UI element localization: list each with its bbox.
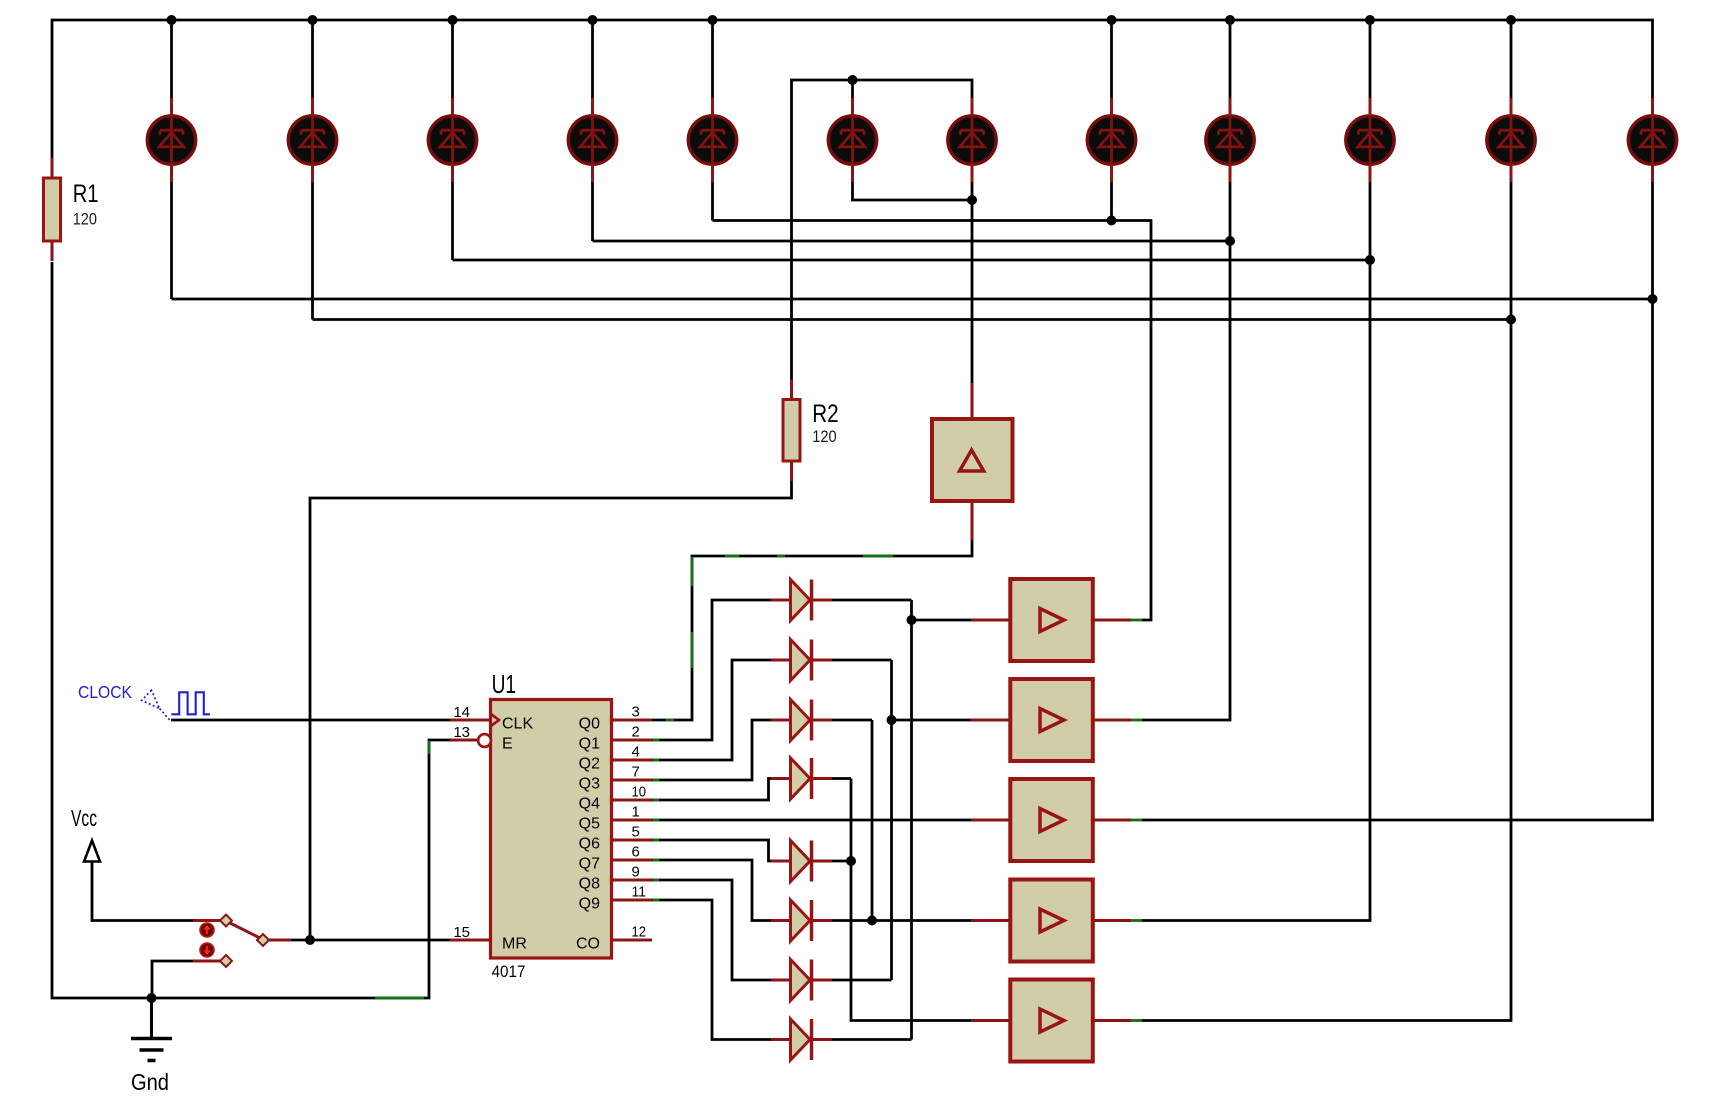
wire LED6 top stub to mini rail <box>851 80 854 98</box>
buffer U5 <box>971 779 1131 861</box>
junction node (171.5,20) <box>167 15 177 25</box>
wire LED9 column to buffer U4 output <box>1142 182 1230 720</box>
wire buffer U6 input <box>872 919 971 922</box>
junction node (712.5,20) <box>708 15 718 25</box>
wire LED2 bottom to bus row <box>311 182 314 320</box>
wire state segment (green) on ground rail <box>375 997 424 1000</box>
junction node (1652.5,299) <box>1648 294 1658 304</box>
wire state segment (green) on Q0 net vertical <box>691 557 694 668</box>
led D1 <box>147 98 195 182</box>
pin 7 Q3 <box>579 764 652 793</box>
svg-text:1: 1 <box>632 804 640 821</box>
resistor R1 <box>44 158 61 261</box>
wire D5 output <box>832 860 851 863</box>
led D2 <box>288 98 336 182</box>
wire state segment (green) at buffer U4 output <box>1131 719 1142 722</box>
diode D3 <box>771 700 832 741</box>
wire rail to LED1 top <box>170 20 173 98</box>
led D9 <box>1206 98 1254 182</box>
svg-text:Q1: Q1 <box>579 735 600 752</box>
svg-text:Gnd: Gnd <box>131 1069 169 1095</box>
switch SW1 down actuator button <box>200 943 214 957</box>
wire Q4 to diode D4 <box>652 779 771 801</box>
junction node (1370,20) <box>1365 15 1375 25</box>
wire Q7 to diode D6 <box>652 860 771 921</box>
wire D6 output <box>832 919 872 922</box>
wire R1 bottom to ground rail and E pin <box>52 262 450 998</box>
diode D1 <box>771 580 832 621</box>
pin 14 CLK <box>450 704 533 733</box>
svg-text:4017: 4017 <box>492 962 526 981</box>
wire rail to LED5 top <box>711 20 714 98</box>
led D4 <box>568 98 616 182</box>
led D6 <box>828 98 876 182</box>
pin 2 Q1 <box>579 724 652 753</box>
wire LED3 bottom to bus row <box>451 182 454 260</box>
wire state segment (green) on Q3 pin <box>653 779 660 782</box>
wire bus LED2 to LED11 column <box>313 318 1512 321</box>
svg-text:7: 7 <box>632 764 640 781</box>
svg-text:E: E <box>502 735 513 752</box>
diode D4 <box>771 758 832 799</box>
wire Vcc arrow to switch throw 1 <box>92 862 193 921</box>
led D8 <box>1087 98 1135 182</box>
wire rail to LED3 top <box>451 20 454 98</box>
diode D8 <box>771 1019 832 1060</box>
junction node (1511,20) <box>1506 15 1516 25</box>
svg-text:R2: R2 <box>812 401 838 428</box>
led D7 <box>948 98 996 182</box>
wire rail to LED10 top <box>1369 20 1372 98</box>
pin 5 Q6 <box>579 824 652 853</box>
wire D4 output <box>832 777 851 780</box>
wire switch pole to MR pin <box>291 939 450 942</box>
wire state segment (green) on Q0 pin <box>666 719 674 722</box>
pin 4 Q2 <box>579 744 652 773</box>
wire LED7 bottom to gate U2 input <box>971 182 974 383</box>
wire state segment (green) on Q2 pin <box>653 759 660 762</box>
junction node (911.5,620) <box>907 615 917 625</box>
wire LED4 bottom to bus row <box>591 182 594 241</box>
wire top cathode rail (net LEDK) <box>52 20 1653 158</box>
svg-text:Q8: Q8 <box>579 875 600 892</box>
wire D3 output <box>832 719 872 722</box>
wire rail to LED9 top <box>1229 20 1232 98</box>
pin 1 Q5 <box>579 804 652 833</box>
wire buffer U4 input <box>892 719 972 722</box>
svg-text:CLK: CLK <box>502 715 533 732</box>
wire clock generator to CLK pin <box>171 719 450 722</box>
pin 13 E <box>450 724 513 753</box>
wire D1 output <box>832 599 912 602</box>
diode D5 <box>771 841 832 882</box>
wire state segment (green) on Q9 pin <box>653 899 660 902</box>
wire state segment (green) on Q5 pin <box>653 819 660 822</box>
wire LED5 bottom to bus row <box>711 182 714 221</box>
junction node (972,200) <box>967 195 977 205</box>
pin 15 MR <box>450 924 527 953</box>
wire state segment (green) at buffer U3 output <box>1131 619 1142 622</box>
junction node (1111.5,220.5) <box>1107 216 1117 226</box>
wire state segment (green) on Q1 pin <box>653 739 660 742</box>
wire LED1 bottom to bus row <box>170 182 173 299</box>
wire Q8 to diode D7 <box>652 880 771 980</box>
wire D8 output <box>832 1038 912 1041</box>
wire state segment (green) on Q7 pin <box>653 859 660 862</box>
led D5 <box>688 98 736 182</box>
junction node (1230,20) <box>1225 15 1235 25</box>
junction node (592.5,20) <box>588 15 598 25</box>
svg-text:Q5: Q5 <box>579 815 600 832</box>
wire Q2 to diode D2 <box>652 660 771 760</box>
svg-text:Q7: Q7 <box>579 855 600 872</box>
svg-text:Q3: Q3 <box>579 775 600 792</box>
wire state segment (green) on Q0 net <box>725 555 893 558</box>
svg-text:9: 9 <box>632 864 640 881</box>
led D11 <box>1487 98 1535 182</box>
wire D2/D7 column <box>890 660 893 980</box>
wire Q3 to diode D3 <box>652 720 771 780</box>
led D3 <box>428 98 476 182</box>
svg-text:R1: R1 <box>73 181 99 208</box>
buffer U7 <box>971 980 1131 1062</box>
svg-text:15: 15 <box>453 924 470 941</box>
pin 12 CO <box>576 924 652 953</box>
wire Q1 to diode D1 <box>652 600 771 740</box>
svg-text:MR: MR <box>502 935 527 952</box>
wire D1/D8 column <box>910 600 913 1040</box>
wire D2 output <box>832 659 892 662</box>
wire state segment (green) at E corner <box>428 741 431 754</box>
wire bus LED3 to LED10 column <box>453 259 1371 262</box>
wire rail to LED8 top <box>1110 20 1113 98</box>
wire LED11 column to buffer U7 output <box>1142 182 1511 1021</box>
wire LED8 bottom to bus row <box>1110 182 1113 221</box>
svg-text:Q0: Q0 <box>579 715 600 732</box>
power symbol Vcc arrow <box>84 841 100 862</box>
junction node (891.5,720) <box>887 715 897 725</box>
svg-text:11: 11 <box>632 884 647 901</box>
svg-text:120: 120 <box>812 427 837 446</box>
junction node (1511,319.5) <box>1506 315 1516 325</box>
pin 9 Q8 <box>579 864 652 893</box>
wire D7 output <box>832 979 892 982</box>
svg-text:2: 2 <box>632 724 640 741</box>
pin 3 Q0 <box>579 704 652 733</box>
wire LED12 column to buffer U5 output <box>1142 182 1653 820</box>
wire state segment (green) on Q4 pin <box>653 799 660 802</box>
wire D4/D5 column to buffer U7 input <box>851 779 971 1021</box>
switch SW1 (SPDT) <box>193 915 291 967</box>
junction node (310,940) <box>305 935 315 945</box>
wire state segment (green) on Q8 pin <box>653 879 660 882</box>
diode D7 <box>771 960 832 1001</box>
svg-text:14: 14 <box>453 704 470 721</box>
resistor R2 <box>783 380 800 482</box>
junction node (872,920.5) <box>867 916 877 926</box>
wire bus LED4 to LED9 column <box>593 240 1231 243</box>
diode D2 <box>771 640 832 681</box>
ic U1 4017 body <box>491 700 612 959</box>
svg-text:Q4: Q4 <box>579 795 600 812</box>
junction node (1370,260) <box>1365 255 1375 265</box>
wire R2 bottom to switch pole / MR net <box>310 481 792 940</box>
svg-text:Vcc: Vcc <box>71 805 97 831</box>
led D10 <box>1346 98 1394 182</box>
svg-text:3: 3 <box>632 704 640 721</box>
svg-text:120: 120 <box>73 209 97 228</box>
wire bus LED1 to LED12 column <box>172 298 1653 301</box>
wire Q5 to buffer U5 input <box>652 819 971 822</box>
wire rail to LED4 top <box>591 20 594 98</box>
wire Q9 to diode D8 <box>652 900 771 1040</box>
buffer U6 <box>971 880 1131 962</box>
ground symbol <box>131 998 172 1061</box>
led D12 <box>1628 98 1676 182</box>
buffer U4 <box>971 679 1131 761</box>
wire Q0 to gate U2 <box>652 540 972 720</box>
switch SW1 up actuator button <box>200 923 214 937</box>
svg-text:10: 10 <box>632 784 647 801</box>
svg-text:4: 4 <box>632 744 640 761</box>
wire LED10 column to buffer U6 output <box>1142 182 1370 921</box>
wire state segment (green) at buffer U7 output <box>1131 1019 1142 1022</box>
svg-text:CO: CO <box>576 935 600 952</box>
pin 10 Q4 <box>579 784 652 813</box>
wire bus LED5/LED8 to buffer U3 output <box>713 221 1152 621</box>
wire state segment (green) on Q6 pin <box>653 839 660 842</box>
wire buffer U3 input <box>912 619 972 622</box>
svg-text:Q9: Q9 <box>579 895 600 912</box>
wire rail to LED11 top <box>1510 20 1513 98</box>
wire switch throw 2 to ground <box>152 961 193 996</box>
wire state segment (green) at buffer U5 output <box>1131 819 1142 822</box>
svg-text:13: 13 <box>453 724 470 741</box>
junction node (852.5,80) <box>848 75 858 85</box>
junction node (851,861) <box>846 856 856 866</box>
junction node (1230,241) <box>1225 236 1235 246</box>
diode D6 <box>771 900 832 941</box>
pin 11 Q9 <box>579 884 652 913</box>
wire Q6 to diode D5 <box>652 840 771 861</box>
junction node (452.5,20) <box>448 15 458 25</box>
junction node (312.5,20) <box>308 15 318 25</box>
gate U2 (LED6/LED7 driver) <box>932 383 1013 540</box>
svg-text:6: 6 <box>632 844 640 861</box>
buffer U3 <box>971 579 1131 661</box>
svg-text:Q6: Q6 <box>579 835 600 852</box>
svg-text:CLOCK: CLOCK <box>78 682 132 702</box>
svg-text:Q2: Q2 <box>579 755 600 772</box>
junction node (1111.5,20) <box>1107 15 1117 25</box>
svg-text:U1: U1 <box>492 669 516 699</box>
wire LED6 bottom link to LED7 column <box>853 182 973 200</box>
wire rail to LED2 top <box>311 20 314 98</box>
pin 6 Q7 <box>579 844 652 873</box>
wire mini rail LED6/LED7 tops to R2 <box>792 80 973 380</box>
svg-text:5: 5 <box>632 824 640 841</box>
clock generator symbol <box>142 690 210 721</box>
svg-text:12: 12 <box>632 924 647 941</box>
junction node (151.5,998) <box>147 993 157 1003</box>
wire state segment (green) at buffer U6 output <box>1131 919 1142 922</box>
wire D3/D6 column <box>871 720 874 921</box>
